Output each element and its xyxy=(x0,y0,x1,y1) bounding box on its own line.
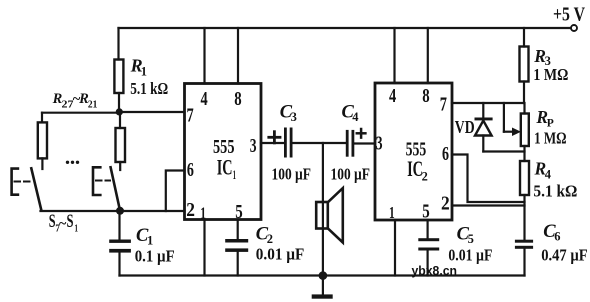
svg-text:3: 3 xyxy=(291,110,297,124)
capacitor C4 plates xyxy=(346,130,349,157)
IC U2 555 timer box xyxy=(375,83,452,220)
wire node to IC1 pin 7 xyxy=(120,111,185,113)
wire IC1 pin 4 to rail xyxy=(203,28,205,84)
svg-text:5.1 kΩ: 5.1 kΩ xyxy=(130,79,168,98)
svg-text:0.01 µF: 0.01 µF xyxy=(256,245,304,264)
node junction speaker/ground xyxy=(319,271,328,280)
svg-text:0.47 µF: 0.47 µF xyxy=(541,246,588,265)
switch S1 actuator xyxy=(93,167,100,195)
speaker BL driver xyxy=(316,202,328,229)
svg-text:1: 1 xyxy=(389,203,395,222)
svg-text:7: 7 xyxy=(440,94,447,116)
svg-text:1: 1 xyxy=(200,204,206,223)
svg-text:4: 4 xyxy=(545,168,552,182)
capacitor C2 xyxy=(237,220,239,240)
svg-text:1 MΩ: 1 MΩ xyxy=(533,65,568,84)
wire IC1 pin 6 link to pin 2 xyxy=(166,171,185,212)
svg-text:7: 7 xyxy=(187,105,194,127)
svg-text:1: 1 xyxy=(75,223,79,235)
wire IC2 pin 1 to ground rail xyxy=(394,220,396,276)
svg-text:1 MΩ: 1 MΩ xyxy=(534,129,567,148)
svg-text:4: 4 xyxy=(352,110,359,124)
svg-text:IC: IC xyxy=(217,155,233,180)
+5V supply terminal xyxy=(571,25,577,31)
capacitor C6 plates xyxy=(515,240,533,243)
IC U1 555 timer box xyxy=(185,84,262,220)
resistor R1 xyxy=(117,28,119,60)
svg-text:8: 8 xyxy=(422,85,429,107)
resistor R3 xyxy=(523,28,525,47)
wire C3 to C4 xyxy=(293,142,346,144)
node junction switches/C1/pin2 xyxy=(116,207,124,215)
svg-text:3: 3 xyxy=(250,135,257,157)
svg-text:8: 8 xyxy=(234,88,241,110)
wire switches to IC1 pin 2 xyxy=(41,210,185,212)
svg-text:ybx8.cn: ybx8.cn xyxy=(412,264,458,278)
svg-text:3: 3 xyxy=(376,133,383,155)
capacitor C5 xyxy=(427,220,429,238)
wire IC1 pin 1 to ground rail xyxy=(203,220,205,276)
wire node to resistor bank xyxy=(42,112,120,114)
svg-text:27: 27 xyxy=(62,100,74,111)
capacitor C4 plus polarity xyxy=(357,132,366,135)
svg-text:21: 21 xyxy=(88,100,98,111)
wire VD anode to RP/R4 node xyxy=(483,150,524,152)
svg-text:5: 5 xyxy=(422,201,430,223)
svg-text:VD: VD xyxy=(455,117,475,137)
potentiometer RP xyxy=(523,103,525,114)
wire IC2 pin 7 xyxy=(452,102,524,104)
ground symbol xyxy=(322,276,324,295)
wire IC1 pin 8 to rail xyxy=(237,28,239,84)
capacitor C3 plus polarity xyxy=(269,136,280,139)
potentiometer RP wiper arm xyxy=(503,103,505,132)
svg-text:1: 1 xyxy=(233,167,236,182)
node junction R1/R21/pin7 xyxy=(116,108,123,115)
resistor R21 xyxy=(119,113,121,128)
speaker BL horn xyxy=(328,188,343,242)
wire IC2 pin 8 to rail xyxy=(427,28,429,83)
svg-text:+5 V: +5 V xyxy=(553,5,585,26)
svg-text:2: 2 xyxy=(441,193,450,215)
resistor R4 xyxy=(520,161,529,195)
svg-text:5: 5 xyxy=(468,232,474,246)
wire IC2 pin 2 xyxy=(452,204,525,206)
svg-text:2: 2 xyxy=(422,169,428,184)
svg-text:5.1 kΩ: 5.1 kΩ xyxy=(533,182,577,201)
svg-text:1: 1 xyxy=(147,234,153,248)
wire C4 to IC2 pin 3 xyxy=(354,142,375,144)
switch S7 actuator xyxy=(12,169,18,195)
svg-text:6: 6 xyxy=(442,143,449,165)
capacitor C3 plates xyxy=(284,128,287,158)
svg-text:0.1 µF: 0.1 µF xyxy=(135,247,175,266)
svg-text:100 µF: 100 µF xyxy=(272,165,312,184)
svg-text:S: S xyxy=(67,211,74,232)
wire IC2 pin 6 link xyxy=(452,155,525,203)
svg-text:6: 6 xyxy=(554,230,560,244)
diode VD xyxy=(482,103,484,118)
svg-text:100 µF: 100 µF xyxy=(331,165,371,184)
switch S7 blade xyxy=(31,168,41,210)
svg-text:2: 2 xyxy=(186,199,195,221)
wire top +5V rail xyxy=(119,27,571,29)
node dots ellipsis between switches xyxy=(66,161,79,164)
svg-text:4: 4 xyxy=(389,85,396,107)
svg-text:4: 4 xyxy=(201,88,208,110)
svg-text:6: 6 xyxy=(187,159,194,181)
wire IC2 pin 4 to rail xyxy=(393,28,395,83)
capacitor C1 xyxy=(118,211,120,240)
resistor R27 xyxy=(41,113,43,123)
switch S1 blade xyxy=(111,167,120,210)
svg-text:1: 1 xyxy=(141,64,147,78)
svg-text:5: 5 xyxy=(235,201,243,223)
wire speaker drop xyxy=(322,143,324,272)
svg-text:0.01 µF: 0.01 µF xyxy=(448,246,492,265)
wire bottom ground rail xyxy=(120,274,525,276)
wire IC1 pin 3 output xyxy=(261,142,284,144)
